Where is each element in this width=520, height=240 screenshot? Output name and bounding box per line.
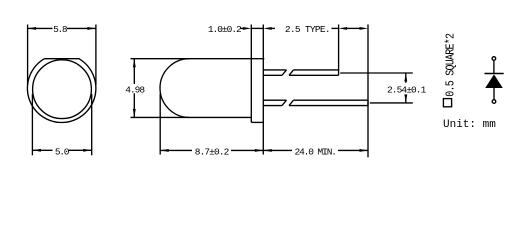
svg-text:2.5 TYPE.: 2.5 TYPE. xyxy=(285,24,330,35)
dim 24.0 left arrow xyxy=(263,149,272,152)
note square symbol xyxy=(443,99,451,107)
dim 8.7 dimension line xyxy=(160,149,263,151)
dim 2.5 right extension line (shared with 24.0) xyxy=(367,25,369,158)
dim 4.98 bottom arrow xyxy=(133,109,136,118)
dim 1.0 arrow tail xyxy=(272,27,275,29)
dim 1.0 leader line xyxy=(240,27,244,29)
dim 5.8 left arrow xyxy=(28,27,36,30)
dim 2.5 stub line xyxy=(332,27,339,29)
dim 2.5 left extension line (to top lead end) xyxy=(338,25,340,70)
dim 8.7 left extension line xyxy=(159,94,161,155)
diode symbol top stem xyxy=(493,60,495,73)
top lead segment 2 xyxy=(289,70,339,75)
dim 4.98 top arrow xyxy=(133,59,136,67)
diode symbol top terminal circle xyxy=(492,57,496,61)
svg-text:5.0: 5.0 xyxy=(55,146,70,157)
dim 2.54 bottom extension line xyxy=(370,102,413,104)
dim 2.5 right arrow xyxy=(360,27,369,30)
dim 2.54 top extension line xyxy=(340,72,413,74)
dim 8.7 right arrow xyxy=(255,149,263,152)
dim 5.8 right extension line xyxy=(95,25,97,86)
svg-text:Unit: mm: Unit: mm xyxy=(443,119,496,131)
flange right edge xyxy=(262,59,264,123)
dim 1.0 right extension line xyxy=(262,25,264,59)
dim 5.0 left arrow xyxy=(32,149,41,152)
side view body bottom line (ext line + body bottom) xyxy=(131,116,252,118)
dim 5.8 left extension line xyxy=(27,25,29,86)
dim 2.54 bottom arrow xyxy=(404,94,407,103)
dome arc xyxy=(160,59,189,118)
flange left edge xyxy=(250,59,252,123)
dim 5.0 right arrow xyxy=(83,149,92,152)
diode symbol anode triangle xyxy=(485,74,503,88)
dim 2.54 dimension line xyxy=(405,73,407,103)
dim 5.0 left extension line xyxy=(31,94,33,155)
side view top outline (ext line + body top + flange top) xyxy=(131,58,265,60)
top lead segment 1 xyxy=(263,70,286,75)
dim 2.5 left arrow xyxy=(339,27,348,30)
dim 5.8 dimension line xyxy=(28,27,96,29)
diode symbol bottom terminal circle xyxy=(492,100,496,104)
dim 8.7/24.0 shared extension line (below flange) xyxy=(262,122,264,154)
dim 24.0 dimension line xyxy=(263,149,368,151)
svg-text:2.54±0.1: 2.54±0.1 xyxy=(387,84,427,95)
diode symbol cathode bar xyxy=(485,73,504,75)
svg-text:0.5 SQUARE*2: 0.5 SQUARE*2 xyxy=(445,33,458,96)
svg-text:5.8: 5.8 xyxy=(53,24,68,35)
dim 24.0 right arrow xyxy=(360,149,369,152)
bottom lead segment 2 xyxy=(289,100,368,105)
flange bottom line xyxy=(251,121,263,123)
diode symbol bottom stem xyxy=(493,88,495,100)
dim 4.98 dimension line xyxy=(133,59,135,118)
dim 1.0 left arrow xyxy=(243,27,252,30)
dim 2.54 top arrow xyxy=(404,73,407,82)
inner epoxy body circle (top view) xyxy=(33,60,92,119)
dim 8.7 left arrow xyxy=(160,149,169,152)
svg-text:8.7±0.2: 8.7±0.2 xyxy=(195,147,230,158)
dim 5.0 dimension line xyxy=(32,149,91,151)
svg-text:4.98: 4.98 xyxy=(125,84,145,95)
dim 5.8 right arrow xyxy=(87,27,96,30)
bottom lead segment 1 xyxy=(263,100,286,105)
dim 1.0 left extension line xyxy=(250,25,252,59)
svg-text:24.0 MIN.: 24.0 MIN. xyxy=(294,147,335,158)
svg-text:1.0±0.2: 1.0±0.2 xyxy=(208,24,242,35)
dim 1.0 right arrow xyxy=(263,27,272,30)
dim 2.5 dimension line xyxy=(347,27,359,29)
dim 5.0 right extension line xyxy=(91,94,93,155)
dim 1.0 line between extensions xyxy=(251,27,263,29)
outer flange circle (top view, flat-top) xyxy=(27,59,95,123)
